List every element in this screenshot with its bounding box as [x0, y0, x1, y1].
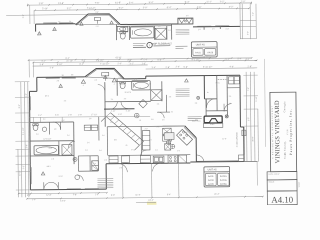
dim text 61'-8 overall strip1 [115, 1, 121, 4]
fireplace firebox hump [205, 119, 222, 123]
wall strip1 bath verticals [116, 24, 171, 40]
dim ext verticals strip1 left [30, 5, 34, 24]
svg-text:lin: lin [171, 111, 173, 113]
door arc kitchen corridor [140, 150, 146, 156]
dryer box strip1 [123, 27, 128, 32]
svg-text:2-8: 2-8 [169, 96, 172, 98]
svg-text:30'-8": 30'-8" [252, 136, 254, 141]
svg-text:2-8: 2-8 [110, 122, 113, 124]
appliance xbox a [163, 128, 172, 134]
wall laundry divider [227, 87, 240, 89]
kitchen counter line [108, 154, 191, 157]
svg-text:5'-2": 5'-2" [66, 58, 70, 60]
svg-text:UNIT #G: UNIT #G [196, 44, 205, 46]
svg-text:5'-4": 5'-4" [238, 58, 242, 60]
wall spine bedroom2 right [104, 82, 106, 127]
svg-text:5-0: 5-0 [99, 150, 102, 152]
svg-text:3'-2": 3'-2" [23, 165, 25, 169]
svg-text:6'-2": 6'-2" [79, 64, 84, 66]
titleblock row A [267, 172, 297, 180]
svg-text:2-8: 2-8 [57, 80, 60, 82]
svg-text:21'-10": 21'-10" [66, 60, 73, 62]
kitchen sink double [153, 156, 164, 163]
window labels 30 36 [62, 74, 74, 77]
unit table main frame [204, 167, 230, 187]
dim ticks strip1 right [240, 21, 256, 39]
sink powder [42, 127, 46, 131]
vanity strip1 [117, 26, 128, 31]
washer dryer [92, 161, 99, 171]
title circle strip1 [147, 42, 152, 47]
svg-text:7'-2": 7'-2" [253, 12, 255, 16]
svg-text:2-6: 2-6 [229, 96, 232, 98]
unit table strip1 header [191, 44, 217, 47]
bay window main [85, 68, 125, 80]
wall masterbath left vline [116, 79, 118, 96]
bay base line main [85, 76, 125, 79]
svg-text:1'-6": 1'-6" [95, 194, 99, 196]
svg-text:2-6: 2-6 [119, 77, 122, 79]
svg-text:A4.01: A4.01 [208, 175, 214, 178]
svg-text:2-6: 2-6 [95, 80, 98, 82]
wall masterbath inner top [117, 80, 148, 82]
svg-text:13'-8": 13'-8" [58, 3, 64, 5]
unit table main right col [218, 173, 230, 186]
door marker triangle strip1 b [110, 21, 113, 24]
svg-text:5'-8": 5'-8" [183, 67, 188, 69]
title scale note strip1 [133, 43, 146, 47]
interior tiny texts [36, 76, 232, 178]
svg-text:4'-6": 4'-6" [229, 66, 234, 68]
dim rot text strip1 left [23, 14, 25, 18]
svg-text:2-6: 2-6 [162, 119, 165, 121]
titleblock for [287, 129, 289, 135]
dim texts main row3 right [151, 66, 252, 69]
svg-text:21'-2": 21'-2" [214, 194, 220, 196]
svg-text:6'-8": 6'-8" [226, 28, 230, 30]
closet wic right walls [157, 95, 170, 118]
kitchen fridge [178, 155, 186, 163]
laundry machines [229, 77, 240, 84]
svg-text:lin: lin [207, 92, 209, 94]
kitchen dishwasher [122, 156, 130, 163]
svg-text:4'-10": 4'-10" [111, 111, 116, 113]
sheet fold line [264, 59, 267, 147]
svg-text:5'-0": 5'-0" [144, 24, 148, 26]
dim vlines strip1 right [242, 4, 256, 39]
svg-text:2-6: 2-6 [67, 135, 70, 137]
kitchen island diagonal [176, 129, 192, 145]
svg-text:4'-0": 4'-0" [61, 120, 65, 122]
svg-text:7'-6 1/2": 7'-6 1/2" [87, 8, 96, 10]
svg-text:2'-8": 2'-8" [26, 144, 28, 148]
wall breakfast top [163, 125, 185, 127]
svg-text:5'-0": 5'-0" [49, 148, 53, 150]
svg-text:2-8: 2-8 [168, 30, 171, 32]
svg-text:A4.02a: A4.02a [220, 175, 227, 178]
wall powder divider [48, 122, 50, 134]
svg-text:2-0: 2-0 [36, 134, 39, 136]
dim texts strip1 row1 [39, 1, 246, 5]
corridor wall kitchen [140, 126, 142, 155]
titleblock sheet number A4.10 [271, 195, 293, 205]
marker triangle master [185, 79, 189, 82]
wall strip1 top-left [36, 24, 76, 32]
wall closet mid horizontal [206, 110, 227, 112]
driveway line [244, 161, 257, 185]
dim texts strip1 row2 [42, 7, 233, 11]
svg-text:7'-10 1/2": 7'-10 1/2" [100, 64, 109, 66]
svg-text:7'-6": 7'-6" [95, 3, 100, 5]
dim ticks main right [243, 75, 258, 161]
wall powder top [30, 121, 74, 123]
stair top circle [134, 113, 139, 118]
svg-text:5'-10": 5'-10" [42, 8, 48, 10]
bathtub strip1 [130, 27, 154, 38]
wall main top-left [37, 76, 85, 78]
toilet strip1 [120, 32, 126, 40]
svg-text:A4.04a: A4.04a [220, 179, 227, 182]
dim line bottom A [19, 193, 107, 197]
svg-text:Georgia: Georgia [283, 101, 286, 113]
dim texts extra main2 [50, 57, 209, 70]
svg-text:3-0: 3-0 [131, 149, 134, 151]
hall vline left cluster [73, 122, 75, 164]
titleblock row B [267, 180, 297, 191]
wall hall top dark [104, 108, 134, 110]
door arc bedroom3 [224, 104, 232, 112]
fireplace note lines [188, 117, 202, 121]
dim line main row3 left [33, 65, 148, 66]
svg-text:2'-8": 2'-8" [144, 59, 148, 61]
svg-text:61'-8": 61'-8" [115, 1, 121, 4]
svg-text:3'-8": 3'-8" [39, 64, 44, 66]
dim texts extra row1 strip1 [129, 1, 212, 4]
dim rot texts main right [248, 87, 259, 142]
wall strip1 bath top [120, 23, 171, 25]
svg-text:9'-10 1/2": 9'-10 1/2" [203, 67, 212, 69]
note block deck [97, 179, 113, 188]
svg-text:2-8: 2-8 [177, 150, 180, 152]
svg-text:2'-0": 2'-0" [96, 26, 100, 28]
svg-text:7'-2": 7'-2" [220, 1, 225, 3]
kitchen counter shaded [164, 133, 174, 140]
svg-text:2-6: 2-6 [212, 28, 215, 30]
svg-text:2-8: 2-8 [195, 103, 198, 105]
dim ext vline strip1 right end [239, 4, 241, 39]
dim tick slashes [16, 2, 264, 200]
svg-text:3'-2": 3'-2" [229, 7, 234, 9]
cooktop circle b [171, 144, 175, 148]
svg-text:21'-8": 21'-8" [222, 138, 227, 140]
stair lower rail [101, 116, 139, 150]
dim line strip1 row2 [35, 8, 250, 10]
door arc breakfast-garage [197, 155, 204, 162]
svg-text:A4.06a: A4.06a [220, 183, 227, 186]
svg-text:2-4: 2-4 [111, 99, 114, 101]
svg-text:DATE: 4.22.97: DATE: 4.22.97 [268, 173, 279, 176]
svg-text:3'-0": 3'-0" [118, 114, 122, 116]
door arc bath2 [68, 141, 75, 148]
svg-text:2-8: 2-8 [89, 118, 92, 120]
svg-text:2'-8": 2'-8" [165, 67, 170, 69]
wall main left jog [29, 77, 37, 91]
wall masterbath bottom [105, 81, 162, 102]
titleblock margin text [299, 182, 301, 188]
toilet master [120, 82, 126, 89]
svg-text:3'-0": 3'-0" [143, 7, 148, 9]
svg-text:2-4: 2-4 [93, 163, 96, 165]
door arc master hall [110, 102, 128, 110]
svg-text:3'-2": 3'-2" [23, 14, 25, 18]
fan circle living [73, 157, 77, 161]
door diamond master [139, 99, 147, 107]
small dim texts powder [48, 120, 65, 150]
window marks strip1 left wall [43, 22, 73, 24]
dim vlines main right [246, 72, 258, 162]
svg-text:3'-2": 3'-2" [38, 115, 42, 117]
wall kitchen-dining bottom [106, 162, 190, 165]
wall main bath front [124, 76, 146, 79]
unit table strip1 cell A4.06 [205, 49, 216, 56]
svg-text:BR 3: BR 3 [47, 166, 51, 168]
svg-text:4'-1 1/2": 4'-1 1/2" [23, 127, 25, 135]
svg-text:2-6: 2-6 [120, 31, 123, 33]
svg-text:A4.01: A4.01 [195, 51, 202, 54]
svg-text:3'-2": 3'-2" [129, 63, 134, 65]
svg-text:5'-2": 5'-2" [119, 8, 124, 10]
wall main right bedroom side [239, 75, 241, 127]
window marks living south [67, 188, 99, 190]
dim texts extra main [82, 58, 242, 69]
wall breakfast diagonal [184, 126, 196, 139]
wall living right vline [105, 164, 107, 189]
svg-text:3'-0": 3'-0" [248, 117, 250, 121]
svg-text:9'-4": 9'-4" [149, 2, 154, 4]
svg-text:A4.03: A4.03 [208, 179, 214, 182]
svg-text:2'-0": 2'-0" [176, 66, 180, 68]
dim texts hall small [111, 110, 131, 112]
svg-text:2'-0": 2'-0" [241, 1, 246, 3]
svg-text:3-0: 3-0 [158, 26, 161, 28]
dim texts main row2 [41, 59, 250, 63]
svg-text:11'-4": 11'-4" [135, 195, 140, 197]
unit table main left col [205, 173, 216, 186]
window sill lines main [46, 77, 76, 79]
svg-text:SHEET: SHEET [299, 182, 301, 188]
svg-text:A4.05: A4.05 [208, 183, 214, 186]
interior tiny texts 2 [45, 87, 232, 166]
scale note lines strip1 [175, 46, 187, 48]
svg-text:2-8: 2-8 [119, 167, 122, 169]
dim rot texts strip1 right [247, 12, 255, 35]
svg-text:14'-0": 14'-0" [60, 200, 66, 202]
shower strip1 [155, 28, 167, 39]
strip1 interior tiny texts [58, 10, 229, 33]
svg-text:VININGS VINEYARD: VININGS VINEYARD [274, 100, 282, 163]
svg-text:2-8: 2-8 [139, 88, 142, 90]
svg-text:3'-2": 3'-2" [67, 8, 72, 10]
kitchen dim texts [145, 126, 161, 130]
window sill lines strip1 [43, 22, 73, 24]
dim line main row2 [33, 60, 257, 62]
bathtub master [132, 81, 151, 90]
svg-text:KIT: KIT [149, 140, 152, 142]
svg-text:24'-2": 24'-2" [148, 200, 154, 202]
svg-text:4'-2": 4'-2" [41, 61, 46, 63]
svg-text:7'-8": 7'-8" [73, 194, 77, 196]
fan circle symbol [197, 96, 200, 99]
svg-text:2'-8": 2'-8" [32, 199, 36, 201]
walls kitchen left partition [107, 126, 163, 155]
unit table main header [204, 169, 230, 172]
dim line strip1 left ext [6, 14, 87, 17]
svg-text:12'-6 1/2": 12'-6 1/2" [43, 138, 51, 140]
note block utility [176, 89, 190, 96]
svg-text:Cobb County,: Cobb County, [284, 141, 287, 159]
dim texts bottom B above [111, 194, 220, 197]
deck post lines [123, 163, 179, 197]
svg-text:2-6: 2-6 [104, 159, 107, 161]
bay base line strip1 [76, 23, 121, 25]
pantry X [165, 143, 171, 150]
window ticks strip1 right wall [197, 25, 229, 28]
french doors living south [44, 182, 59, 190]
svg-text:A4.10: A4.10 [271, 195, 293, 205]
wall wic verticals [217, 75, 228, 116]
wall main garage right jog [240, 127, 244, 162]
svg-text:UNIT #G: UNIT #G [208, 169, 217, 171]
wall bath2 right [58, 141, 60, 156]
svg-text:2-6: 2-6 [64, 100, 67, 102]
closet walls hall [78, 156, 98, 171]
svg-text:30: 30 [58, 21, 60, 23]
svg-text:SCALE:: SCALE: [269, 180, 276, 183]
bay door triangles main [81, 78, 116, 87]
svg-text:W.I.C.: W.I.C. [216, 82, 221, 84]
marker triangle bedroom2 [59, 84, 63, 88]
dim text middle small [43, 138, 51, 140]
dim line main row3 right [146, 68, 257, 69]
svg-text:3'-0": 3'-0" [247, 31, 249, 35]
svg-text:7'-6 1/2": 7'-6 1/2" [96, 60, 104, 62]
svg-text:2'-2": 2'-2" [145, 128, 149, 130]
svg-text:2-4: 2-4 [43, 119, 46, 121]
svg-text:3-0: 3-0 [186, 15, 189, 17]
window marks main left wall [46, 77, 76, 79]
pantry column [142, 131, 150, 150]
titleblock paces properties [289, 108, 294, 155]
svg-text:5'-0": 5'-0" [134, 79, 138, 81]
svg-text:2-6: 2-6 [102, 135, 105, 137]
wall main left exterior [28, 91, 31, 189]
svg-text:8'-4": 8'-4" [203, 57, 207, 59]
svg-text:9'-1 1/2": 9'-1 1/2" [192, 59, 200, 61]
door arc powder [53, 122, 61, 130]
dim line strip1 row1 [28, 2, 252, 7]
wall strip1 bath inner horiz [116, 25, 171, 28]
door arc dining [119, 163, 161, 172]
door arc bedroom2 spine [98, 84, 105, 91]
builtin boxes hall [84, 125, 98, 130]
svg-text:5'-2": 5'-2" [225, 59, 230, 61]
marker triangle living [41, 172, 45, 176]
svg-text:2 CAR GARAGE: 2 CAR GARAGE [235, 132, 238, 148]
svg-text:2'-8": 2'-8" [78, 114, 82, 116]
ceiling fan symbol strip1 bay [94, 18, 100, 28]
wall hall right vline [98, 117, 100, 141]
svg-text:dn: dn [125, 145, 127, 147]
wall living bottom [30, 188, 106, 191]
dim string hall [30, 114, 150, 118]
unit table strip1 cell A4.01 [193, 49, 203, 56]
bar bay window strip1 (alt) [178, 18, 193, 24]
main title faint line [136, 202, 156, 204]
svg-text:TOP FLOOR ALT: TOP FLOOR ALT [152, 42, 172, 46]
appliance xbox b [163, 135, 172, 141]
wall strip1 top-right section [193, 26, 240, 29]
wall bath2 bottom [30, 155, 74, 157]
text high clg [192, 121, 201, 123]
svg-text:5'-2": 5'-2" [26, 93, 28, 97]
svg-text:12'-8": 12'-8" [59, 176, 64, 178]
svg-text:M BATH: M BATH [125, 91, 132, 94]
shower bath2 [62, 145, 72, 155]
dim ext stubs hall [34, 117, 63, 122]
unit table strip1 frame [191, 42, 217, 58]
svg-text:8'-2": 8'-2" [19, 104, 21, 108]
hanger rod wic [218, 78, 226, 80]
door arc bath3 [206, 99, 215, 108]
svg-text:5'-8": 5'-8" [157, 60, 162, 62]
marker triangle strip1 left2 [53, 27, 57, 31]
svg-text:BR 2: BR 2 [45, 96, 49, 98]
door circle hall [75, 175, 83, 181]
ceiling fan symbol main bay [102, 72, 109, 80]
kitchen range [168, 155, 178, 163]
svg-text:3'-1": 3'-1" [157, 126, 161, 128]
svg-text:11'-2": 11'-2" [206, 1, 212, 3]
svg-text:9'-8": 9'-8" [95, 12, 99, 14]
svg-text:2-8: 2-8 [51, 158, 54, 160]
dim ext vlines main top left [29, 60, 33, 77]
svg-text:2-6: 2-6 [87, 142, 90, 144]
wall main top mid-right [146, 74, 240, 77]
svg-text:9'-0": 9'-0" [111, 195, 115, 197]
svg-text:36: 36 [71, 74, 73, 76]
svg-text:2-6: 2-6 [124, 98, 127, 100]
kitchen box left [109, 156, 118, 163]
note text optional bar strip1 [176, 29, 190, 34]
titleblock georgia [283, 101, 286, 113]
svg-text:2-8: 2-8 [229, 103, 232, 105]
svg-text:2-6: 2-6 [157, 103, 160, 105]
svg-text:5'-10": 5'-10" [57, 64, 63, 66]
fireplace circle symbol [225, 115, 228, 118]
kitchen box2 [140, 156, 150, 163]
staircase diagonal [106, 112, 144, 145]
dim line main row1 [28, 56, 252, 60]
svg-text:2-8: 2-8 [195, 119, 198, 121]
dim line bottom B [27, 197, 263, 199]
bathtub bath2 [34, 146, 58, 155]
wall bath3 right vline [204, 76, 206, 117]
window lines left wall [30, 96, 33, 184]
svg-text:2-8: 2-8 [149, 84, 152, 86]
svg-text:5'-4": 5'-4" [129, 2, 134, 4]
svg-text:3'-8": 3'-8" [39, 3, 44, 5]
dim rot texts main left [19, 93, 29, 176]
